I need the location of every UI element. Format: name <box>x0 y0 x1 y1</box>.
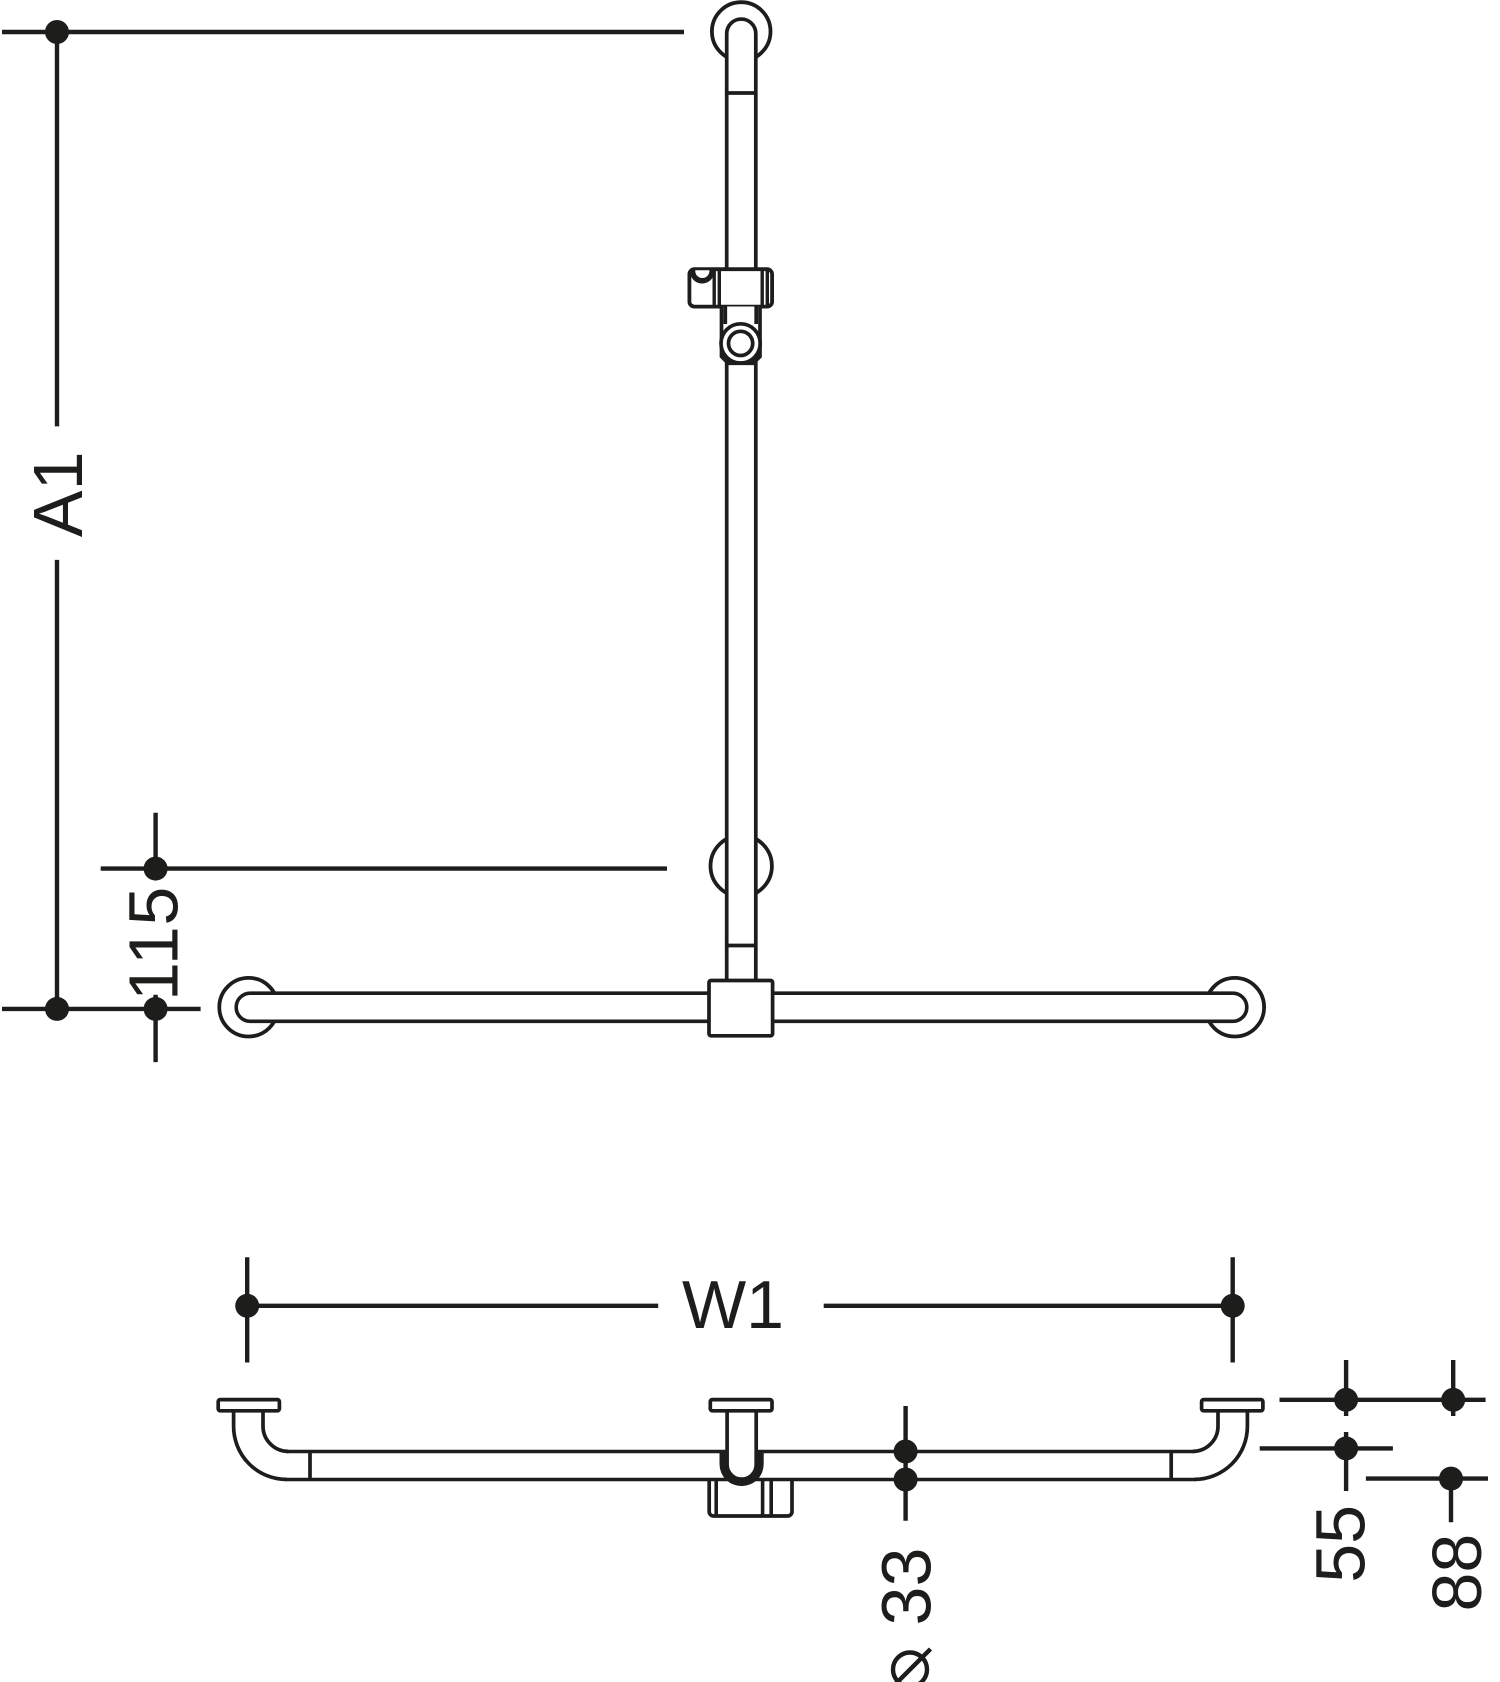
svg-text:W1: W1 <box>682 1267 784 1343</box>
svg-text:55: 55 <box>1302 1505 1380 1583</box>
svg-text:88: 88 <box>1418 1534 1496 1612</box>
svg-text:A1: A1 <box>19 451 97 537</box>
svg-text:33: 33 <box>868 1548 946 1626</box>
svg-text:5: 5 <box>115 887 193 926</box>
svg-text:1: 1 <box>115 962 193 1001</box>
svg-text:1: 1 <box>115 926 193 965</box>
